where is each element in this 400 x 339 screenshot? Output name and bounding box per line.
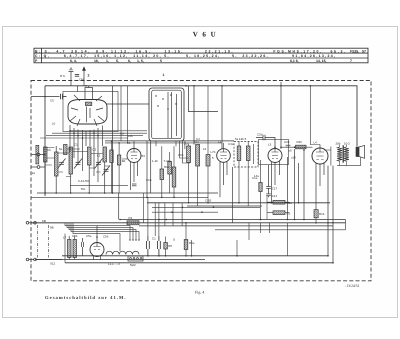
V2a legs [131,162,138,191]
resistor R5b [168,162,172,175]
svg-text:R1: R1 [129,216,133,220]
electrolytic C5b bars [158,236,161,256]
tuner coil 2 [55,152,59,176]
coil L7b leads [207,86,209,203]
mid column resistor R14 [259,183,262,192]
R16 lower lead [315,218,317,223]
R5 leads [165,237,167,256]
V4 electrodes [316,149,324,160]
demod tube V3 envelope [268,149,282,163]
svg-text:5,: 5, [116,59,119,63]
screen dropper vertical x=232.5 [232,167,234,223]
long bus y=222 [31,222,346,224]
gang feed stub c [184,141,186,149]
V2a top lead [133,141,135,149]
heater bus dots [158,207,214,221]
riser x=237 [236,240,238,256]
bus end link [345,220,347,230]
svg-text:V 6 U: V 6 U [193,31,217,39]
IFT primary winding [237,146,241,161]
tuner coil 6 lead [104,162,106,193]
heater bus y=212.2 [152,211,218,213]
transformer core lines [342,145,345,162]
bottom return bus [65,262,333,264]
svg-text:2: 2 [88,73,90,77]
output transformer primary winding [337,147,342,161]
feeder drop x=164.9 [164,203,166,226]
cable bundle line 4 [71,223,139,240]
heater bus y=207.3 [152,206,260,208]
svg-text:2a: 2a [32,171,36,175]
series resistor R1 [127,221,139,225]
svg-text:C6: C6 [47,148,51,152]
tuner input terminal lower [31,166,45,169]
svg-text:S12: S12 [50,262,56,266]
filter choke bumps [106,251,139,254]
coil 52 lower lead [197,166,199,206]
tuner coil 6 [103,147,107,162]
V1 anode plate [85,102,91,106]
svg-text:6, 4,: 6, 4, [70,59,77,63]
V3 legs [272,161,280,203]
leg routing wire 3 [46,135,143,137]
svg-text:L0: L0 [52,122,56,126]
vertical from dial box bottom [155,141,157,146]
mains terminal KB [26,222,65,225]
PSU junction dots [96,219,238,257]
riser x=269.5 [269,223,271,233]
svg-text:1, 5,: 1, 5, [137,59,144,63]
svg-text:C17: C17 [272,187,278,191]
mains terminal S12 [26,258,62,261]
trimmer capacitor right pair [102,166,110,176]
V4 legs [316,163,324,210]
feeder drop x=173 [172,203,174,226]
V1 anode structure [85,88,93,100]
coil L7b [206,155,210,167]
V4 top lead [319,145,321,149]
trimmer capacitor left-2 [74,159,82,169]
bleeder resistor R5 [164,243,168,250]
IF tube V2a envelope [127,149,141,163]
rectifier tube V5 envelope [90,243,104,257]
V2 electrodes [220,149,227,159]
lower ground bus [31,196,208,198]
svg-text:R3: R3 [287,211,291,215]
output transformer secondary winding [344,147,349,161]
svg-text:5: 5 [160,59,162,63]
left return riser [64,234,66,263]
svg-text:L1: L1 [218,140,222,144]
gang feed wire b [183,141,191,163]
tuner coil 2 leads [55,146,57,193]
chassis dashed border [31,81,371,281]
V5 legs [94,256,101,260]
svg-text:R16: R16 [319,212,325,216]
terminal strip S22 [128,256,143,261]
wire drop x=121 [120,86,122,141]
svg-text:14, 15,: 14, 15, [316,59,327,63]
svg-text:Gesamtschaltbild zur 41.M.: Gesamtschaltbild zur 41.M. [45,295,127,300]
aerial arrow symbol [83,67,86,79]
svg-text:C-65: C-65 [205,199,212,203]
IF tube V2 envelope [217,149,231,163]
grid bus wire upper [105,140,234,142]
leg bend dots [69,130,120,144]
mixer stage shield box [63,92,118,132]
svg-text:o5: o5 [289,149,293,153]
long bus y=219.5 [120,219,346,221]
V5 electrodes [94,243,101,250]
antenna down-leads [71,80,84,86]
vertical x=287.5 [287,157,289,220]
V1 leg wires [70,125,103,182]
drop x=143.7 [143,193,145,223]
grid bus wire lower [105,142,222,144]
tuning gang box inner [152,90,182,139]
cable bundle line 5 [73,223,120,251]
V1 top cap lead [88,86,90,88]
cable bundle line 3 [69,223,136,240]
feeder drop x=182.1 [181,203,183,226]
svg-text:1: 1 [163,73,165,77]
IF transformer dashed can [234,142,258,168]
PSU lower bus [35,259,205,261]
svg-text:R2a: R2a [287,201,293,205]
tuner coil 4 [69,147,73,174]
gang box stator lines [168,92,177,138]
svg-text:5|22: 5|22 [130,263,136,267]
svg-text:L5: L5 [127,141,131,145]
svg-text:C1: C1 [74,143,78,147]
osc coil 25b leads [118,143,120,193]
svg-text:C56: C56 [103,235,109,239]
wire drop x=112.5 [112,86,114,193]
R4 leads [161,146,163,197]
output tube V4 envelope [312,148,328,164]
mid bus y=202.8 [147,202,330,204]
svg-text:B1: B1 [122,159,126,163]
svg-text:C29: C29 [284,140,290,144]
long bus y=225.9 [139,225,333,227]
svg-text:C-16,5%: C-16,5% [78,179,90,183]
osc coil 25b [117,155,120,165]
V5 top lead [96,226,98,243]
transformer bottom bus [337,165,361,167]
mixer tube V1 envelope [68,100,107,125]
svg-text:o15: o15 [291,156,296,160]
svg-text:KB: KB [42,219,46,223]
svg-text:C1: C1 [152,237,156,241]
dropper resistor R5a [184,240,188,250]
capacitor C17 [266,165,271,197]
wire drop x=147 [146,141,148,197]
gang box marks [155,94,176,109]
tuner input terminal upper [31,153,45,156]
svg-text:1-16: 1-16 [152,159,158,163]
svg-text:L3: L3 [268,142,272,146]
wire drop x=222 [221,86,223,149]
V2a cathode capacitor [132,184,137,186]
gang feed wire a [180,141,189,158]
svg-text:C14: C14 [272,194,278,198]
osc coil 25a [110,150,113,163]
svg-text:B: S, 4,7 28,14, 8,9, 11,12: B: S, 4,7 28,14, 8,9, 11,12, 16,5, 13,15… [35,49,345,53]
power transformer winding b [73,240,77,258]
svg-text:L7b: L7b [211,150,216,154]
svg-text:1,: 1, [106,59,109,63]
V2a electrodes [131,149,138,159]
svg-text:L6: L6 [203,147,207,151]
svg-text:C4: C4 [196,137,200,141]
wire drop x=194 [193,86,195,145]
trimmer capacitor mid pair [95,159,103,169]
earth symbol [69,68,74,79]
B+ vertical x=304 [303,150,305,220]
IFT secondary winding [246,146,250,161]
feeder drop x=155.2 [154,203,156,236]
B+ feed to V4 top [310,86,320,145]
wire drop x=150.7 [150,141,152,193]
svg-text:R26: R26 [297,140,303,144]
svg-text:C5a: C5a [86,234,92,238]
wire drop x=127.5 [127,86,129,143]
interstage wire V3-V4 [281,146,313,148]
svg-text:C8: C8 [120,132,124,136]
transformer leads [69,236,75,260]
svg-text:C4a: C4a [228,142,234,146]
svg-text:5%: 5% [81,187,86,191]
riser x=249 [248,223,250,240]
AVC vertical x=298.6 [298,163,300,203]
screen feed vertical x=294.5 [294,149,296,220]
mid bus y=206 [187,205,262,207]
tuner coil 3 [64,145,68,155]
resistor R26 [296,145,307,149]
detector stage box [259,140,289,165]
decoupling resistor R3 [273,211,285,215]
V2 top lead [223,143,225,149]
svg-text:5B: 5B [50,226,54,230]
svg-text:C5: C5 [50,99,54,103]
osc coil 25a leads [111,141,113,193]
switch linkage dash-dot 2 [47,225,49,258]
svg-text:C2: C2 [93,148,97,152]
tuner connector links [45,148,110,177]
R14 leads [260,160,262,220]
svg-text:5a: 5a [59,147,63,151]
tuning gang box outer [149,88,184,141]
tube table frame [34,48,368,63]
bus junction dots [85,85,334,264]
bias resistor R16 [314,210,318,218]
svg-text:L2: L2 [97,154,101,158]
top bus wire [45,86,357,146]
power transformer winding a [68,240,72,258]
wire elbow to V2 grid [188,86,218,112]
svg-text:L4b: L4b [128,134,133,138]
coil 20a leads [188,145,190,203]
V3 electrodes [272,149,279,159]
tuner inner ground link [70,184,128,186]
riser x=191.6 [191,240,193,256]
coupling capacitor C2b [256,135,275,149]
link wires through resistors [267,196,289,220]
switch linkage dash-dot 1 [37,225,39,258]
tuner junction dots [44,96,113,194]
speaker magnet block [356,147,359,157]
V1 electrode spokes [70,95,104,126]
leg routing wire 4 [40,137,128,139]
svg-text:R5: R5 [168,244,172,248]
resistor R4 [160,169,164,180]
V2 legs [220,162,227,198]
riser x=260.5 [260,223,262,233]
feeder drop x=158.9 [158,203,160,236]
cable bundle line 2 [67,223,133,240]
smoothing cap pair [82,238,84,256]
V1 anode output wire [107,103,150,105]
svg-text:28b: 28b [336,141,341,145]
svg-text:R3: R3 [141,154,145,158]
svg-text:R1a: R1a [164,165,170,169]
svg-text:10-2: 10-2 [344,141,350,145]
IFT leads [239,142,254,207]
transformer winding leads [340,145,347,166]
svg-text:6,: 6, [128,59,131,63]
riser x=287.5b [287,223,289,256]
svg-text:- D/24/51: - D/24/51 [345,284,360,288]
svg-text:R.S.: R.S. [60,74,66,78]
svg-text:FS25, 97: FS25, 97 [350,49,366,53]
tuner coil 5 [88,147,92,165]
decoupling resistor R2 [273,200,285,204]
PSU output bus [62,255,328,257]
tuner coil 1 [44,147,48,162]
cable bundle line 1 [65,223,130,240]
R6 leads [170,146,174,197]
right vertical wire pair inner [327,166,329,256]
right vertical wire pair outer [332,166,334,263]
leg routing wire 2 [52,132,147,134]
tuner coil 4 lead [70,174,72,193]
svg-text:C2b: C2b [257,133,263,137]
feeder drop x=147.9 [147,197,149,236]
tuner ground bus [37,192,218,194]
left feed wire [44,86,46,196]
capacitor C29 [286,145,291,147]
capacitor C14 [266,194,271,196]
coil 20a [187,146,191,163]
ground-to-bus elbow [118,193,120,220]
speaker cone [359,145,365,158]
coupling capacitor C5 [31,94,67,99]
leg routing wire 1 [70,130,147,132]
svg-text:CM: CM [79,78,84,82]
wire drop x=281 to V3 [280,82,282,149]
svg-text:5a 12b 5: 5a 12b 5 [235,137,247,141]
svg-text:6,1 6,: 6,1 6, [290,59,299,63]
wire V4 to transformer [324,147,331,166]
svg-text:16,: 16, [94,59,99,63]
svg-text:C6b: C6b [178,153,184,157]
svg-text:Fig. 4: Fig. 4 [195,290,204,295]
resistor R6 tall [172,167,176,187]
svg-text:7: 7 [350,59,352,63]
coil 52 [196,145,200,167]
svg-text:L4: L4 [314,141,318,145]
antenna coupling capacitor CM [75,75,79,77]
speaker bottom lead [360,158,362,166]
svg-text:14a: 14a [254,174,259,178]
R5a leads [185,223,187,256]
tuner coil 1 lead [44,162,46,193]
electrolytic C5a bars [147,236,150,256]
trimmer capacitor left pair [58,159,66,169]
antenna input coil 2a [36,145,39,164]
long bus y=229.8 [215,229,346,231]
tuner coil 5 lead [88,165,90,193]
V1 screen stub [77,86,79,92]
